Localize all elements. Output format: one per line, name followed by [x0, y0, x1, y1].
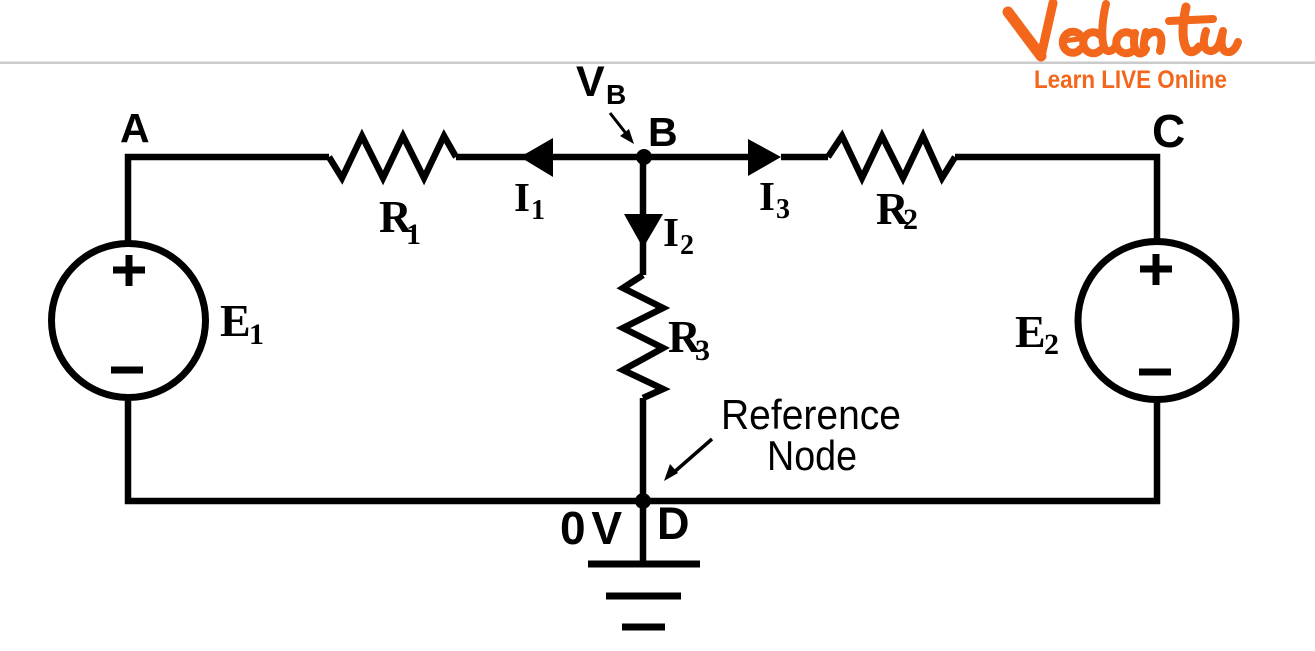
current arrow I3 [748, 139, 781, 176]
svg-text:I: I [663, 209, 679, 255]
svg-text:C: C [1152, 105, 1185, 157]
svg-text:1: 1 [249, 318, 264, 351]
svg-text:B: B [648, 109, 678, 155]
wire I2 to R3 [640, 242, 647, 275]
node D junction dot [635, 493, 651, 509]
svg-text:Node: Node [767, 432, 857, 479]
svg-text:Reference: Reference [721, 391, 901, 438]
svg-text:2: 2 [680, 230, 694, 261]
E1 plus [113, 255, 145, 286]
E1 minus [111, 367, 143, 374]
Vedantu logo [1008, 3, 1238, 56]
svg-text:2: 2 [1044, 328, 1059, 361]
voltage source E1 [52, 244, 206, 398]
wire R1 to I1 [456, 154, 643, 161]
current arrow I2 [624, 214, 663, 248]
reference node arrow [664, 439, 712, 481]
svg-text:0 V: 0 V [560, 502, 622, 554]
VB arrow [610, 113, 634, 144]
resistor R1 [329, 136, 456, 178]
current arrow I1 [520, 138, 553, 177]
svg-text:V: V [576, 58, 605, 106]
ground [588, 501, 700, 627]
voltage source E2 [1078, 242, 1236, 400]
bottom wire [128, 399, 1157, 501]
wire R3 to node D [640, 398, 647, 501]
wire B to I3 [643, 154, 748, 161]
wire top-left horizontal (A to R1) [128, 157, 329, 241]
E2 minus [1139, 369, 1171, 376]
resistor R2 [828, 136, 955, 178]
separator line [0, 62, 1315, 65]
svg-text:I: I [514, 174, 530, 220]
resistor R3 [623, 275, 663, 398]
wire B down to I2 [640, 157, 647, 215]
svg-text:3: 3 [695, 334, 710, 367]
svg-text:E: E [220, 295, 251, 346]
svg-text:D: D [657, 498, 690, 549]
svg-text:B: B [606, 79, 626, 110]
svg-text:1: 1 [531, 195, 545, 226]
svg-text:2: 2 [903, 203, 918, 236]
node B junction dot [636, 149, 652, 165]
svg-text:E: E [1015, 306, 1046, 357]
svg-text:I: I [759, 173, 775, 219]
svg-text:1: 1 [406, 218, 421, 251]
svg-text:Learn LIVE Online: Learn LIVE Online [1034, 66, 1227, 94]
wire R2 to corner C [955, 157, 1157, 241]
E2 plus [1140, 254, 1172, 285]
wire I3 to R2 [781, 154, 828, 161]
svg-text:A: A [120, 105, 150, 151]
svg-text:3: 3 [776, 194, 790, 225]
